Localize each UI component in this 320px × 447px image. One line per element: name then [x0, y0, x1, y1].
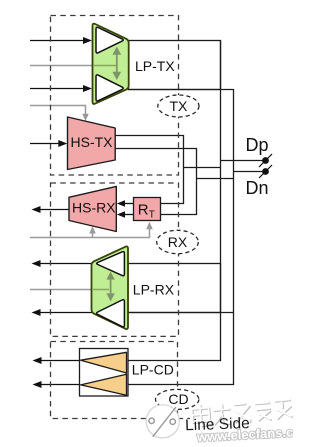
resistor RT box [134, 198, 161, 221]
wire gray enable HS-TX [30, 106, 86, 115]
wire LP-CD output bottom arrow [41, 384, 80, 386]
wire HS-RX output arrow [40, 209, 70, 211]
svg-text:R: R [138, 202, 149, 219]
LP-TX driver block [93, 24, 129, 104]
LP-TX output label box [129, 41, 221, 90]
node Dp pin [259, 154, 272, 167]
LP-RX input label box [128, 264, 221, 313]
node Dn pin [259, 165, 272, 178]
buffer triangle LP-TX bottom [96, 75, 123, 101]
wire HS-TX top output [115, 136, 184, 204]
svg-text:RX: RX [168, 234, 188, 250]
svg-text:CD: CD [168, 391, 188, 407]
svg-text:Line Side: Line Side [185, 415, 250, 434]
wire RT to HS-RX bottom arrow [124, 214, 133, 216]
TX ellipse [158, 95, 199, 117]
dashed line-side bottom extension [178, 418, 191, 420]
svg-text:T: T [149, 210, 155, 221]
svg-text:LP-TX: LP-TX [135, 58, 175, 74]
svg-text:TX: TX [169, 98, 188, 114]
wire gray enable LP-TX [30, 65, 93, 67]
wire LP-RX output top arrow [40, 263, 96, 265]
wire LP-CD output top arrow [41, 360, 80, 362]
buffer triangle LP-RX bottom [97, 300, 125, 327]
svg-text:HS-TX: HS-TX [71, 134, 114, 150]
dashed RX module box [51, 183, 179, 336]
svg-text:Dp: Dp [246, 135, 269, 155]
HS-TX block [68, 117, 116, 170]
wire Dp pin lead [221, 160, 266, 162]
gray double arrow LP-RX [110, 278, 112, 296]
HS-RX block [69, 186, 116, 231]
wire gray branch to HS-RX [92, 233, 94, 238]
wire Dn rail [128, 90, 234, 385]
wire HS-TX top branch to Dp [184, 167, 221, 169]
watermark chinese characters [191, 397, 293, 429]
wire LP-RX output bottom arrow [40, 312, 96, 314]
wire Dn pin lead [234, 171, 266, 173]
dashed TX module box [51, 16, 179, 176]
buffer triangle LP-RX top [97, 252, 125, 276]
svg-text:Dn: Dn [246, 178, 269, 198]
wire Dp rail [128, 41, 221, 361]
wire LP-TX input top arrow [30, 40, 84, 42]
wire HS-TX input arrow [30, 143, 60, 145]
svg-text:LP-RX: LP-RX [133, 282, 175, 298]
LP-RX receiver block [92, 246, 129, 329]
wire LP-TX input bottom arrow [30, 88, 84, 90]
wire HS-TX bottom output [115, 149, 197, 215]
wire gray enable RX section [30, 229, 150, 238]
RX ellipse [157, 230, 199, 253]
wire HS-TX bottom branch to Dn [197, 178, 234, 180]
gray double arrow LP-TX [116, 53, 118, 74]
svg-text:LP-CD: LP-CD [132, 362, 174, 378]
wire gray enable LP-RX [30, 289, 92, 291]
LP-CD block [80, 349, 129, 397]
wire RT to HS-RX top arrow [124, 203, 133, 205]
wire LP-RX bottom input [128, 312, 234, 314]
contention detector triangle top [81, 352, 127, 373]
dashed CD module box [51, 342, 178, 419]
svg-text:HS-RX: HS-RX [72, 200, 116, 216]
CD ellipse [156, 389, 199, 409]
buffer triangle LP-TX top [96, 27, 123, 53]
watermark logo circle [146, 405, 179, 438]
contention detector triangle bottom [81, 374, 127, 395]
